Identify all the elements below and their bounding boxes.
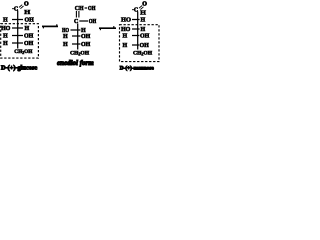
svg-text:O: O <box>24 1 29 7</box>
svg-text:H: H <box>63 42 68 48</box>
svg-text:O: O <box>142 1 147 7</box>
svg-text:OH: OH <box>81 42 91 48</box>
svg-text:OH: OH <box>24 41 34 47</box>
svg-text:D-(+)-mannose: D-(+)-mannose <box>120 64 155 71</box>
svg-text:OH: OH <box>25 17 35 23</box>
svg-text:OH: OH <box>88 6 96 12</box>
svg-text:CH2OH: CH2OH <box>70 50 90 56</box>
svg-text:OH: OH <box>24 34 34 40</box>
svg-text:OH: OH <box>140 34 150 40</box>
svg-text:C: C <box>14 7 18 13</box>
svg-text:H: H <box>3 34 8 40</box>
svg-text:CH2OH: CH2OH <box>133 50 153 56</box>
svg-text:OH: OH <box>81 34 91 40</box>
svg-text:H: H <box>3 41 8 47</box>
svg-text:H: H <box>24 9 30 16</box>
svg-text:OH: OH <box>89 19 97 25</box>
svg-text:H: H <box>63 34 68 40</box>
svg-text:enediol form: enediol form <box>57 59 94 67</box>
svg-text:H: H <box>123 43 128 49</box>
svg-text:D-(+)-glucose: D-(+)-glucose <box>1 64 37 71</box>
svg-text:H: H <box>123 34 128 40</box>
svg-text:H: H <box>141 27 146 33</box>
svg-text:C: C <box>74 19 78 25</box>
svg-text:H: H <box>25 26 30 32</box>
svg-text:HO: HO <box>121 27 131 33</box>
svg-text:HO: HO <box>1 26 11 32</box>
svg-text:C: C <box>134 8 138 14</box>
svg-text:CH2OH: CH2OH <box>14 49 33 55</box>
svg-text:H: H <box>140 10 146 17</box>
svg-text:CH: CH <box>75 6 84 12</box>
svg-text:HO: HO <box>121 18 131 24</box>
svg-text:H: H <box>3 17 8 23</box>
svg-text:H: H <box>141 18 146 24</box>
svg-text:OH: OH <box>140 43 150 49</box>
